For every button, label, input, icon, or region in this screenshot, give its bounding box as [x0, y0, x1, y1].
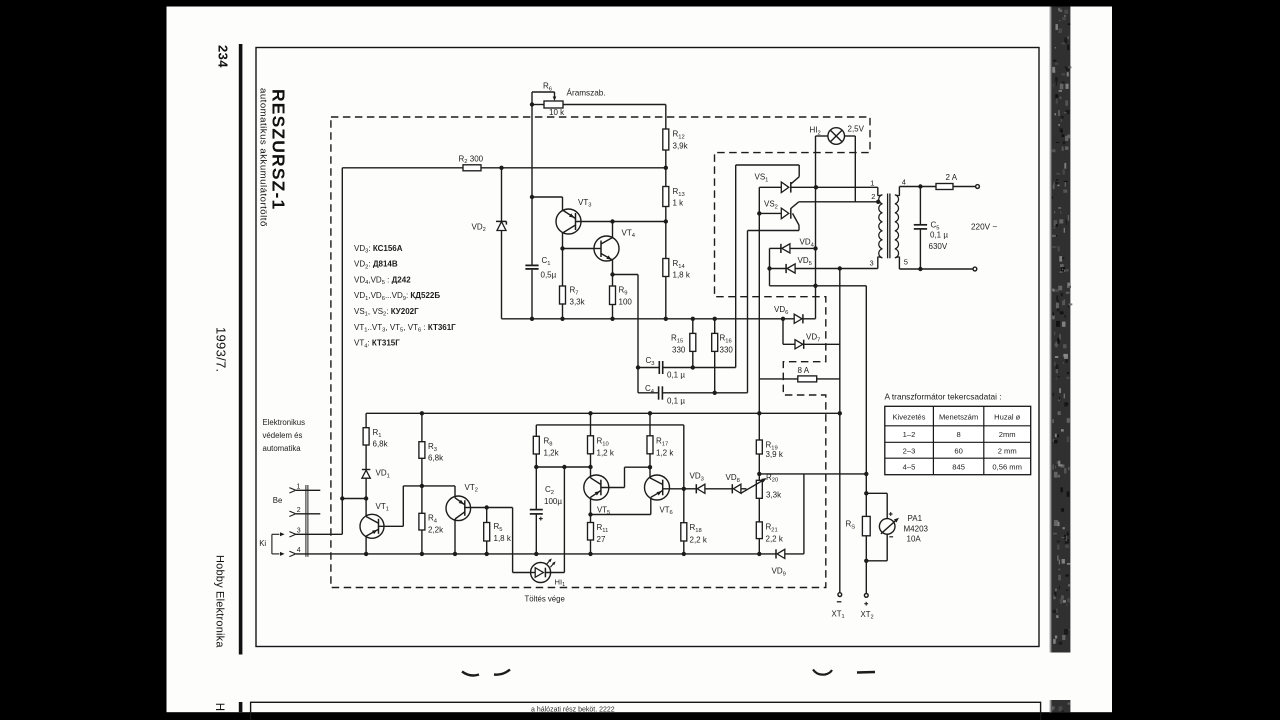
svg-text:630V: 630V	[929, 242, 948, 251]
svg-text:845: 845	[952, 462, 965, 471]
svg-text:Menetszám: Menetszám	[939, 413, 978, 422]
svg-text:4: 4	[902, 177, 906, 186]
svg-text:Ki: Ki	[259, 539, 266, 548]
svg-text:0,56 mm: 0,56 mm	[992, 462, 1022, 471]
svg-text:1: 1	[297, 483, 301, 490]
svg-text:10A: 10A	[907, 535, 922, 544]
svg-text:A transzformátor tekercsadatai: A transzformátor tekercsadatai :	[885, 392, 1002, 402]
svg-text:6,8k: 6,8k	[373, 440, 389, 449]
svg-text:Be: Be	[273, 496, 283, 505]
svg-text:5: 5	[904, 257, 908, 266]
svg-text:1993/7.: 1993/7.	[214, 327, 229, 372]
svg-text:1–2: 1–2	[903, 430, 916, 439]
svg-text:1,2k: 1,2k	[544, 449, 560, 458]
svg-text:60: 60	[954, 446, 962, 455]
svg-text:0,1 µ: 0,1 µ	[667, 371, 685, 380]
svg-text:2,5V: 2,5V	[848, 125, 865, 134]
svg-text:2 mm: 2 mm	[998, 446, 1017, 455]
svg-text:M4203: M4203	[904, 525, 929, 534]
svg-text:2,2k: 2,2k	[428, 526, 444, 535]
svg-text:2 A: 2 A	[946, 173, 958, 182]
svg-text:0,5µ: 0,5µ	[541, 271, 557, 280]
svg-text:1,2 k: 1,2 k	[597, 449, 615, 458]
svg-text:RESZURSZ-1: RESZURSZ-1	[269, 89, 289, 210]
svg-text:3,3k: 3,3k	[570, 298, 586, 307]
svg-text:1: 1	[870, 178, 874, 187]
svg-text:0,1 µ: 0,1 µ	[930, 231, 948, 240]
svg-text:1 k: 1 k	[673, 199, 685, 208]
svg-text:10 k: 10 k	[549, 108, 565, 117]
svg-text:PA1: PA1	[908, 514, 923, 523]
svg-text:2: 2	[871, 192, 875, 201]
svg-text:8: 8	[956, 430, 960, 439]
svg-text:3: 3	[870, 258, 874, 267]
svg-text:automatikus akkumulátortöltő: automatikus akkumulátortöltő	[258, 88, 269, 227]
svg-text:100µ: 100µ	[544, 497, 562, 506]
svg-text:6,8k: 6,8k	[428, 454, 444, 463]
svg-text:4: 4	[297, 547, 301, 554]
svg-text:8 A: 8 A	[798, 366, 810, 375]
svg-text:2mm: 2mm	[999, 430, 1016, 439]
svg-text:3,9k: 3,9k	[673, 142, 689, 151]
svg-text:330: 330	[720, 346, 734, 355]
svg-text:Hobby Elektronika: Hobby Elektronika	[214, 555, 226, 648]
svg-text:220V ~: 220V ~	[971, 222, 997, 231]
svg-text:a hálózati rész beköt. 2222: a hálózati rész beköt. 2222	[531, 706, 615, 713]
svg-text:3: 3	[297, 527, 301, 534]
svg-text:automatika: automatika	[263, 444, 302, 453]
svg-text:H: H	[213, 703, 225, 711]
svg-text:234: 234	[216, 45, 231, 68]
svg-text:0,1 µ: 0,1 µ	[667, 397, 685, 406]
svg-text:330: 330	[672, 346, 686, 355]
svg-text:27: 27	[597, 535, 606, 544]
svg-text:2,2 k: 2,2 k	[766, 535, 784, 544]
svg-text:Elektronikus: Elektronikus	[263, 418, 306, 427]
svg-text:védelem és: védelem és	[263, 431, 303, 440]
svg-text:3,3k: 3,3k	[766, 491, 782, 500]
svg-text:1,2 k: 1,2 k	[656, 449, 674, 458]
svg-text:1,8 k: 1,8 k	[494, 534, 512, 543]
svg-text:4–5: 4–5	[903, 462, 916, 471]
svg-text:3,9 k: 3,9 k	[766, 450, 784, 459]
svg-text:1,8 k: 1,8 k	[673, 271, 691, 280]
svg-text:Áramszab.: Áramszab.	[567, 88, 606, 98]
svg-text:Kivezetés: Kivezetés	[893, 413, 926, 422]
svg-text:2–3: 2–3	[903, 446, 916, 455]
svg-text:Huzal ø: Huzal ø	[994, 413, 1021, 422]
svg-text:Töltés vége: Töltés vége	[525, 595, 565, 604]
svg-text:2: 2	[297, 507, 301, 514]
svg-text:2,2 k: 2,2 k	[690, 536, 708, 545]
svg-text:100: 100	[619, 298, 633, 307]
